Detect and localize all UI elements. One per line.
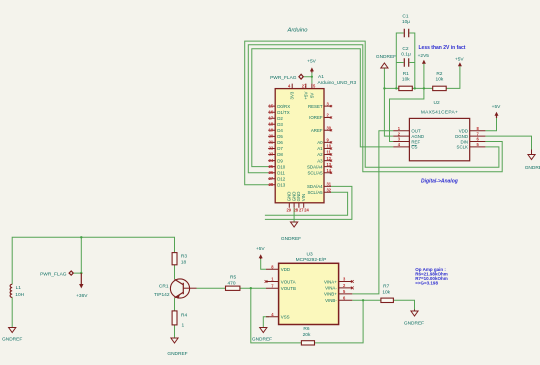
ground GNDREF under U3 VSS xyxy=(252,328,272,343)
svg-text:U3: U3 xyxy=(307,251,313,257)
svg-text:VOUTA: VOUTA xyxy=(281,279,296,284)
op-amp U3 body MCP6292-E/P xyxy=(279,251,339,324)
U3 right pin names xyxy=(324,279,337,303)
svg-text:SCLK: SCLK xyxy=(457,145,469,150)
A1 bottom pin stubs GND GND GND VIN xyxy=(289,203,303,208)
U3 left pin numbers xyxy=(271,264,274,317)
svg-text:1: 1 xyxy=(182,323,185,329)
svg-text:+36V: +36V xyxy=(76,293,88,299)
svg-text:L1: L1 xyxy=(16,285,22,291)
svg-text:+5V: +5V xyxy=(256,246,265,252)
svg-text:28: 28 xyxy=(269,182,274,187)
svg-text:DIN: DIN xyxy=(460,139,468,144)
capacitor C2 xyxy=(401,46,411,67)
svg-text:D8: D8 xyxy=(277,152,283,157)
svg-text:R2: R2 xyxy=(436,71,442,77)
svg-text:CR1: CR1 xyxy=(159,283,169,289)
svg-text:A3: A3 xyxy=(317,158,323,163)
svg-text:GNDREF: GNDREF xyxy=(167,351,187,357)
A1 left pin names xyxy=(277,104,290,188)
wire: U2 VDD to +5V xyxy=(485,114,496,131)
svg-text:D1/TX: D1/TX xyxy=(277,110,290,115)
svg-text:VINA+: VINA+ xyxy=(324,279,337,284)
U2 right pin numbers xyxy=(477,126,480,147)
A1 left pin stubs D0-D13 xyxy=(268,106,275,185)
power symbol +2V5 xyxy=(418,53,430,64)
svg-text:VDD: VDD xyxy=(281,267,290,272)
svg-text:10k: 10k xyxy=(436,76,444,82)
svg-text:D11: D11 xyxy=(277,170,285,175)
wire: bottom divider rail GND-R1-R2-+5V xyxy=(384,64,460,88)
ground GNDREF right of U2 xyxy=(525,150,540,172)
power symbol +5V at U2 xyxy=(492,104,501,118)
power symbol +5V at U3 xyxy=(256,246,265,259)
svg-text:+2V5: +2V5 xyxy=(418,53,430,59)
ground GNDREF under L1 xyxy=(2,328,22,343)
wire: R5 to U3 VOUTB xyxy=(240,287,266,289)
svg-text:PWR_FLAG: PWR_FLAG xyxy=(270,75,297,81)
svg-text:MAX541CEPA+: MAX541CEPA+ xyxy=(421,110,458,116)
svg-text:20: 20 xyxy=(269,134,274,139)
power flag PWR_FLAG at +36V xyxy=(40,271,73,278)
U2 left pin names xyxy=(411,129,424,150)
svg-text:SDA/A4: SDA/A4 xyxy=(307,184,323,189)
svg-text:10μ: 10μ xyxy=(402,19,410,25)
power symbol +36V (down arrow) xyxy=(76,273,88,299)
wire: R7 to ground xyxy=(393,300,414,309)
wire: DAC OUT long run to U3 VINB+ xyxy=(352,131,393,294)
wire: CS wrap-around to Arduino D10 xyxy=(252,49,393,167)
svg-text:29: 29 xyxy=(287,208,292,213)
svg-text:26: 26 xyxy=(269,170,274,175)
ground GNDREF under Arduino xyxy=(281,222,301,242)
A1 bottom pin numbers xyxy=(287,208,310,213)
svg-text:VOUTB: VOUTB xyxy=(281,286,296,291)
wire: R3 to collector CR1 xyxy=(174,265,176,279)
svg-text:D9: D9 xyxy=(277,158,283,163)
wire: U2 AGND up to ground rail xyxy=(384,88,393,136)
capacitor C1 xyxy=(402,14,410,38)
U3 left pin names xyxy=(281,267,296,320)
U2 right pin names xyxy=(455,129,468,150)
wire: SCLK wrap-around to Arduino D13 xyxy=(245,41,499,185)
svg-text:A1: A1 xyxy=(318,74,324,80)
svg-text:18: 18 xyxy=(181,260,187,266)
U2 right pin stubs xyxy=(470,131,486,147)
svg-text:Arduino: Arduino xyxy=(287,28,309,34)
wire: Arduino pin32 SCL/A5 stub run xyxy=(265,192,348,215)
wire: capacitor right rail xyxy=(409,33,414,88)
resistor R4 xyxy=(172,311,187,329)
U2 left pin numbers xyxy=(398,126,401,147)
U3 no-connect crosses xyxy=(265,280,354,289)
wire: emitter CR1 to R4 xyxy=(174,298,176,311)
svg-text:R1: R1 xyxy=(403,71,409,77)
note: Op Amp gain block xyxy=(415,267,447,286)
svg-text:+5V: +5V xyxy=(492,104,501,110)
svg-text:TIP142: TIP142 xyxy=(154,292,170,298)
svg-text:D4: D4 xyxy=(277,128,283,133)
svg-text:GNDREF: GNDREF xyxy=(525,165,540,171)
svg-text:28: 28 xyxy=(294,208,299,213)
wire: VINB- to R7 xyxy=(352,299,381,301)
wire: L1 bottom to ground xyxy=(11,297,13,327)
wire: VOUTB junction down to R6 left xyxy=(251,288,302,343)
svg-text:+5V: +5V xyxy=(303,91,308,99)
svg-text:0.1μ: 0.1μ xyxy=(401,52,411,58)
svg-text:A2: A2 xyxy=(317,152,323,157)
wire: +2V5 stem xyxy=(423,61,425,89)
svg-text:D3: D3 xyxy=(277,122,283,127)
svg-text:R4: R4 xyxy=(181,313,187,319)
svg-text:GNDREF: GNDREF xyxy=(252,337,272,343)
power symbol +5V at Arduino xyxy=(307,59,316,73)
svg-text:17: 17 xyxy=(269,115,274,120)
svg-text:25: 25 xyxy=(269,164,274,169)
svg-text:470: 470 xyxy=(227,280,235,286)
svg-text:20k: 20k xyxy=(303,332,311,338)
svg-text:+5V: +5V xyxy=(455,57,464,63)
svg-text:A0: A0 xyxy=(317,140,323,145)
svg-text:21: 21 xyxy=(269,140,274,145)
svg-text:GNDREF: GNDREF xyxy=(376,54,396,60)
svg-text:C2: C2 xyxy=(402,46,408,52)
wire: R4 to ground xyxy=(174,325,176,338)
svg-text:18: 18 xyxy=(269,122,274,127)
A1 right no-connect crosses xyxy=(330,105,332,174)
resistor R2 xyxy=(433,71,447,91)
wire: U2 REF up to +2V5 node xyxy=(390,88,424,141)
wire: Arduino +5V pin to +5V symbol xyxy=(303,69,312,84)
svg-text:R5: R5 xyxy=(230,274,236,280)
svg-text:32: 32 xyxy=(327,187,332,192)
svg-text:R7: R7 xyxy=(383,283,389,289)
svg-text:10k: 10k xyxy=(402,76,410,82)
svg-text:OUT: OUT xyxy=(411,129,421,134)
A1 bottom pin names rotated xyxy=(287,192,306,202)
U3 right pin stubs xyxy=(339,282,353,301)
Arduino A1 body xyxy=(275,74,356,203)
resistor R7 xyxy=(381,283,394,302)
svg-text:Digital->Analog: Digital->Analog xyxy=(421,178,458,184)
svg-text:REF: REF xyxy=(411,139,420,144)
svg-text:23: 23 xyxy=(269,152,274,157)
svg-text:GNDREF: GNDREF xyxy=(404,321,424,327)
A1 right pin names xyxy=(307,104,323,195)
svg-text:D7: D7 xyxy=(277,146,283,151)
svg-text:AGND: AGND xyxy=(411,134,424,139)
svg-text:D12: D12 xyxy=(277,176,286,181)
resistor R3 xyxy=(172,253,187,266)
svg-text:AREF: AREF xyxy=(311,128,323,133)
svg-text:GNDREF: GNDREF xyxy=(281,236,301,242)
DAC U2 body MAX541CEPA+ xyxy=(409,100,469,161)
svg-text:10k: 10k xyxy=(382,289,390,295)
svg-text:5V: 5V xyxy=(309,93,314,98)
svg-text:22: 22 xyxy=(269,146,274,151)
svg-text:D0/RX: D0/RX xyxy=(277,104,290,109)
wire: Arduino GND pin to ground xyxy=(293,208,295,222)
svg-text:Arduino_UNO_R3: Arduino_UNO_R3 xyxy=(318,80,357,86)
svg-text:19: 19 xyxy=(269,128,274,133)
power flag PWR_FLAG at Arduino xyxy=(270,74,303,81)
svg-text:VIN: VIN xyxy=(301,194,306,201)
svg-text:SDA/A4: SDA/A4 xyxy=(307,164,323,169)
svg-text:D10: D10 xyxy=(277,164,286,169)
A1 top pin names rotated xyxy=(290,91,315,99)
A1 right pin stubs xyxy=(324,106,331,192)
wire: U3 VDD to +5V xyxy=(261,256,266,269)
power symbol +5V at divider xyxy=(455,57,464,67)
A1 top pin stubs 3V3 / +5V xyxy=(292,84,312,89)
ground GNDREF at divider (rotated up) xyxy=(376,54,396,68)
svg-text:RESET: RESET xyxy=(308,104,323,109)
svg-text:R6: R6 xyxy=(303,326,309,332)
svg-text:27: 27 xyxy=(269,176,274,181)
wire: capacitor left rail xyxy=(396,33,403,88)
svg-text:D5: D5 xyxy=(277,134,283,139)
wire: top-left rail from L1 up across to R3 xyxy=(12,237,174,284)
A1 top pin numbers xyxy=(288,84,316,89)
svg-text:GNDREF: GNDREF xyxy=(2,337,22,343)
svg-text:SCL/A5: SCL/A5 xyxy=(307,190,323,195)
inductor L1 xyxy=(10,284,25,298)
svg-text:IOREF: IOREF xyxy=(309,115,323,120)
resistor R1 xyxy=(399,71,413,91)
svg-text:U2: U2 xyxy=(434,100,440,106)
U2 CS overline xyxy=(411,144,416,146)
wire: Arduino pin31 SDA/A4 stub run xyxy=(265,186,352,219)
svg-text:VSS: VSS xyxy=(281,315,290,320)
wire: ground stem at capacitors xyxy=(383,68,385,88)
ground GNDREF under R7 xyxy=(404,310,424,327)
wire: R6 right up to VINB- node xyxy=(315,300,364,343)
wire: U2 DGND to ground xyxy=(485,136,531,149)
U2 left pin stubs xyxy=(393,131,409,147)
svg-text:15: 15 xyxy=(269,103,274,108)
svg-text:D6: D6 xyxy=(277,140,283,145)
svg-text:24: 24 xyxy=(269,158,274,163)
svg-text:16: 16 xyxy=(269,109,274,114)
svg-text:=>G=3.198: =>G=3.198 xyxy=(415,280,438,285)
svg-text:VINB-: VINB- xyxy=(325,298,337,303)
wire: +36V / PWR_FLAG drop from rail xyxy=(73,237,81,273)
A1 left pin numbers xyxy=(269,103,274,187)
svg-text:MCP6292-E/P: MCP6292-E/P xyxy=(296,257,327,263)
wire: base CR1 to R5 xyxy=(197,287,226,289)
svg-text:A1: A1 xyxy=(317,146,323,151)
svg-text:C1: C1 xyxy=(402,14,408,20)
svg-text:10H: 10H xyxy=(15,292,24,298)
U3 left pin stubs xyxy=(266,269,279,317)
svg-text:24: 24 xyxy=(304,208,309,213)
transistor Q CR1 TIP142 xyxy=(154,279,196,299)
A1 right pin numbers xyxy=(327,101,332,192)
svg-text:D13: D13 xyxy=(277,183,286,188)
wire: U3 VSS to ground xyxy=(263,317,269,328)
svg-text:D2: D2 xyxy=(277,116,283,121)
svg-text:3V3: 3V3 xyxy=(290,91,295,99)
svg-text:R3: R3 xyxy=(181,254,187,260)
svg-text:27: 27 xyxy=(302,84,307,89)
svg-text:VINB+: VINB+ xyxy=(324,292,337,297)
svg-text:VDD: VDD xyxy=(459,129,468,134)
svg-text:SCL/A5: SCL/A5 xyxy=(307,170,323,175)
svg-text:+5V: +5V xyxy=(307,59,316,65)
svg-text:Less than 2V in fact: Less than 2V in fact xyxy=(419,45,466,51)
svg-text:DGND: DGND xyxy=(455,134,468,139)
ground GNDREF under R4 xyxy=(167,338,187,357)
svg-text:PWR_FLAG: PWR_FLAG xyxy=(40,272,67,278)
resistor R6 xyxy=(301,326,314,345)
svg-text:31: 31 xyxy=(327,182,332,187)
U3 right pin numbers xyxy=(343,277,346,301)
wire: DIN wrap-around to Arduino D11 xyxy=(248,45,502,173)
resistor R5 xyxy=(226,274,240,290)
svg-text:VINA-: VINA- xyxy=(325,286,337,291)
